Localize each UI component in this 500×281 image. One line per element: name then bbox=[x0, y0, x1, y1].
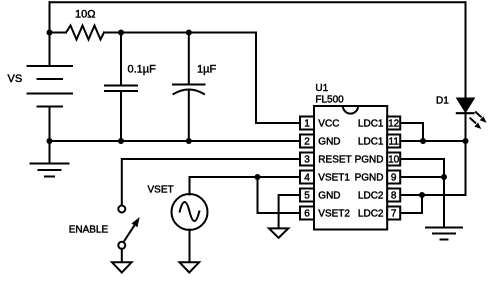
wire top rail VCC to LED anode bbox=[50, 1, 466, 3]
pin box 4 bbox=[300, 171, 314, 184]
LED D1 emission arrow 1 bbox=[475, 112, 487, 123]
pin box 1 bbox=[300, 117, 314, 130]
svg-text:RESET: RESET bbox=[318, 155, 351, 166]
switch ENABLE arrow head bbox=[132, 217, 140, 227]
svg-text:3: 3 bbox=[304, 155, 310, 166]
svg-text:VSET: VSET bbox=[148, 185, 174, 196]
LED D1 triangle bbox=[457, 98, 474, 112]
wire pin 5 GND to ground bbox=[279, 195, 300, 228]
node C1 bottom junction bbox=[118, 138, 124, 144]
battery VS plate long 1 bbox=[28, 65, 73, 67]
pin box 3 bbox=[300, 153, 314, 166]
node VSET1 VSET2 junction bbox=[255, 174, 261, 180]
ground below battery bbox=[31, 141, 69, 177]
svg-text:5: 5 bbox=[304, 191, 310, 202]
svg-text:FL500: FL500 bbox=[315, 94, 344, 105]
switch ENABLE arm bbox=[125, 226, 135, 241]
svg-text:6: 6 bbox=[304, 209, 310, 220]
wire pin 9 to ground bbox=[401, 177, 445, 227]
svg-text:LDC1: LDC1 bbox=[358, 119, 384, 130]
capacitor C2 curved plate bbox=[174, 90, 205, 95]
capacitor C1 plates bbox=[105, 86, 137, 92]
wire bus right of resistor to VCC corner bbox=[104, 32, 256, 34]
svg-text:GND: GND bbox=[318, 191, 340, 202]
svg-text:VS: VS bbox=[8, 73, 23, 85]
wire pin 8 to LED cathode line bbox=[401, 194, 466, 196]
svg-text:7: 7 bbox=[391, 209, 397, 220]
battery VS plate short 1 bbox=[38, 78, 63, 80]
pin box 10 bbox=[387, 153, 400, 166]
svg-text:12: 12 bbox=[388, 119, 400, 130]
node LED pin11 junction bbox=[463, 138, 469, 144]
pin box 7 bbox=[387, 207, 400, 220]
IC U1 notch bbox=[343, 106, 358, 114]
svg-text:GND: GND bbox=[318, 137, 340, 148]
switch ENABLE top contact circle bbox=[118, 206, 125, 213]
node C2 top junction bbox=[186, 30, 192, 36]
wire VCC drop to pin 1 bbox=[256, 33, 300, 124]
wire battery top lead bbox=[49, 2, 51, 66]
LED D1 cathode bar bbox=[456, 112, 475, 114]
svg-text:11: 11 bbox=[389, 137, 400, 148]
ground right bbox=[426, 228, 462, 240]
wire junction riser to pin 6 VSET2 bbox=[258, 177, 301, 213]
svg-text:9: 9 bbox=[391, 173, 397, 184]
svg-text:1µF: 1µF bbox=[197, 64, 216, 76]
node pin10 pin9 junction bbox=[441, 174, 447, 180]
pin box 9 bbox=[387, 171, 400, 184]
svg-text:LDC2: LDC2 bbox=[358, 191, 384, 202]
svg-text:U1: U1 bbox=[315, 83, 328, 94]
svg-text:10: 10 bbox=[388, 155, 400, 166]
wire battery bottom lead bbox=[49, 107, 51, 142]
svg-text:LDC2: LDC2 bbox=[358, 209, 384, 220]
svg-text:10Ω: 10Ω bbox=[75, 9, 95, 21]
capacitor C2 straight plate bbox=[173, 84, 205, 86]
battery VS plate short 2 bbox=[38, 106, 63, 108]
wire pin 12 to junction bbox=[401, 123, 424, 141]
svg-text:8: 8 bbox=[391, 191, 397, 202]
svg-text:4: 4 bbox=[304, 173, 310, 184]
capacitor C1 bottom lead bbox=[120, 91, 122, 141]
wire ground bus to pin 2 bbox=[50, 140, 301, 142]
wire pin 10 to junction bbox=[401, 159, 445, 177]
capacitor C1 0.1uF top lead bbox=[120, 33, 122, 86]
wire VSET top to pin 4 VSET1 bbox=[190, 177, 301, 195]
svg-text:PGND: PGND bbox=[355, 173, 384, 184]
pin box 8 bbox=[387, 189, 400, 202]
pin box 6 bbox=[300, 207, 314, 220]
pin box 2 bbox=[300, 135, 314, 148]
node C1 top junction bbox=[118, 30, 124, 36]
battery VS plate long 2 bbox=[28, 93, 73, 95]
wire ENABLE to pin 3 RESET bbox=[122, 159, 300, 205]
node battery bottom junction bbox=[47, 138, 53, 144]
node C2 bottom junction bbox=[186, 138, 192, 144]
switch ENABLE bottom contact circle bbox=[118, 242, 125, 249]
svg-text:ENABLE: ENABLE bbox=[69, 225, 109, 236]
LED D1 emission arrow 2 bbox=[470, 118, 482, 129]
wire VSET bottom stem bbox=[189, 230, 191, 262]
svg-text:PGND: PGND bbox=[355, 155, 384, 166]
wire LED branch vertical bbox=[465, 2, 467, 195]
node battery top junction bbox=[47, 30, 53, 36]
open ground triangle below pin 5 bbox=[269, 228, 288, 238]
wire bus left of resistor bbox=[50, 32, 67, 34]
node pin12 pin11 junction bbox=[420, 138, 426, 144]
svg-text:VCC: VCC bbox=[318, 119, 339, 130]
pin box 11 bbox=[387, 135, 400, 148]
wire pin 7 riser to pin 8 bbox=[401, 195, 423, 213]
wire pin 11 to LED cathode line bbox=[401, 140, 466, 142]
svg-text:2: 2 bbox=[304, 137, 310, 148]
svg-text:1: 1 bbox=[304, 119, 310, 130]
capacitor C2 1uF top lead bbox=[188, 33, 190, 85]
open ground triangle below ENABLE bbox=[112, 262, 132, 272]
IC U1 body bbox=[314, 106, 387, 230]
resistor R 10ohm bbox=[66, 26, 104, 40]
open ground triangle below VSET bbox=[180, 262, 200, 272]
pin box 5 bbox=[300, 189, 314, 202]
switch ENABLE lower stem bbox=[121, 250, 123, 262]
svg-text:LDC1: LDC1 bbox=[358, 137, 384, 148]
svg-text:VSET2: VSET2 bbox=[318, 209, 350, 220]
svg-text:D1: D1 bbox=[436, 96, 449, 107]
source VSET sine bbox=[180, 202, 200, 221]
svg-text:0.1µF: 0.1µF bbox=[128, 64, 157, 76]
capacitor C2 bottom lead bbox=[188, 92, 190, 142]
node pin8 pin7 junction bbox=[419, 192, 425, 198]
svg-text:VSET1: VSET1 bbox=[318, 173, 350, 184]
source VSET circle bbox=[172, 194, 208, 230]
pin box 12 bbox=[387, 117, 400, 130]
